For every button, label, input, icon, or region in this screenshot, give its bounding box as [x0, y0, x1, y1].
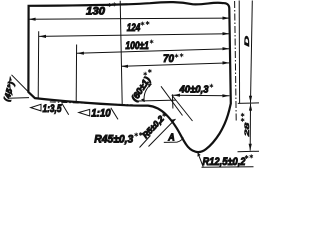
- svg-text:130: 130: [86, 6, 106, 18]
- dimension 70 line: [121, 63, 230, 66]
- dimension 130 line: [29, 18, 230, 19]
- dimension 40 text: [179, 84, 214, 96]
- second slanted extension line: [172, 95, 193, 121]
- dimension 124 line: [39, 34, 230, 37]
- svg-text:124: 124: [127, 22, 141, 34]
- R12,5 leader: [198, 153, 203, 167]
- svg-text:R5±0,2: R5±0,2: [140, 113, 166, 140]
- svg-text:40±0,3: 40±0,3: [179, 84, 209, 96]
- angle arc: [144, 84, 152, 102]
- dimension 100 extension line: [75, 45, 77, 103]
- chamfer 45deg extension line: [12, 75, 35, 98]
- R12,5 text: [203, 154, 254, 168]
- 45deg angle arc: [10, 77, 13, 96]
- dimension 40 line: [173, 94, 229, 97]
- flange bottom extension line: [238, 150, 260, 153]
- dimension 40 extension line: [171, 94, 174, 108]
- dimension 70 extension line: [120, 1, 122, 105]
- dimension 124 extension line: [37, 31, 40, 99]
- inner rim face extension line: [238, 1, 240, 104]
- angle reference line at vertex: [138, 99, 176, 102]
- slope reference dash-dot line: [50, 102, 133, 105]
- diameter D dimension line: [251, 1, 253, 103]
- dimension 100 line: [77, 49, 230, 54]
- R45 text: [94, 132, 142, 145]
- svg-text:1:3,5: 1:3,5: [43, 103, 63, 115]
- svg-text:1:10: 1:10: [91, 108, 111, 120]
- svg-text:70: 70: [163, 53, 175, 65]
- dimension 124 text: [127, 21, 150, 34]
- R12,5 underline shelf: [202, 166, 254, 168]
- dimension 100 text: [125, 40, 153, 53]
- dimension 70 text: [163, 53, 183, 65]
- flange face angle extension line L1: [161, 86, 183, 115]
- svg-text:R12,5±0,2: R12,5±0,2: [203, 156, 246, 168]
- centerline dash-dot right: [235, 1, 237, 121]
- 45deg horizontal reference line: [8, 97, 29, 100]
- R5 leader line: [149, 119, 176, 147]
- dimension 130 text: [86, 2, 116, 17]
- svg-text:D: D: [243, 35, 251, 47]
- R45 short leader slash: [140, 136, 151, 148]
- slope 1:10 symbol: [79, 109, 90, 116]
- svg-text:(45°): (45°): [2, 80, 16, 102]
- svg-text:28: 28: [243, 122, 250, 138]
- tread level extension line: [238, 102, 259, 105]
- svg-text:R45±0,3: R45±0,3: [94, 133, 133, 145]
- svg-text:(60±1): (60±1): [129, 75, 152, 103]
- svg-text:100±1: 100±1: [125, 40, 148, 52]
- dimension 28 line: [249, 104, 251, 151]
- slope 1:3,5 symbol: [31, 104, 41, 111]
- wheel rim profile outline: [28, 2, 230, 152]
- 28 asterisks: [241, 113, 244, 122]
